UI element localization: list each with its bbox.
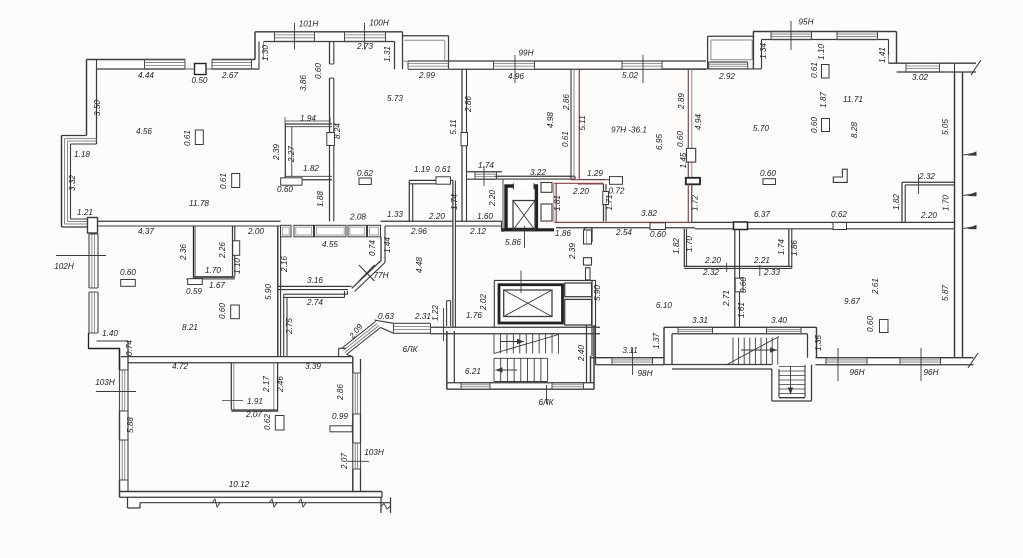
6LK stair lower flight treads [494,357,548,359]
thin line left of upper shaft [502,179,504,232]
bottom wall 10.12 [120,491,383,493]
dim line 1.94 [285,120,330,122]
window 100H [345,31,386,33]
svg-text:0.60: 0.60 [676,131,685,147]
svg-text:5.90: 5.90 [264,284,273,300]
svg-text:0.74: 0.74 [368,240,377,256]
left wall bump step top [62,135,87,137]
svg-text:5.88: 5.88 [126,417,135,433]
svg-text:0.61: 0.61 [561,131,570,147]
door 0.62 in right corridor wall [833,223,847,230]
wall 3.02 segment y63.2/72 [889,62,977,64]
svg-text:0.62: 0.62 [263,414,272,430]
svg-text:1.94: 1.94 [300,114,316,123]
svg-text:3.02: 3.02 [912,73,928,82]
wall 0.74 vertical [119,349,121,371]
svg-text:2.89: 2.89 [677,93,686,110]
window 98H [612,357,653,359]
svg-text:0.63: 0.63 [378,312,394,321]
wall 99H to 5.02 [535,60,623,62]
rect 0.60 room 9.67 [880,320,889,333]
svg-text:3.22: 3.22 [530,168,546,177]
left wall step 1.40 [88,333,90,349]
corridor wall 2.96 segment [381,220,453,222]
red small room door on right wall [603,192,609,205]
bay corner piece lower [347,355,353,357]
svg-text:95Н: 95Н [798,18,813,27]
pier black at red wall bottom [686,178,700,185]
black wall x603.5-607 below red room [603,184,605,221]
svg-text:8.28: 8.28 [850,122,859,138]
right wall lower to corner [352,469,354,492]
door rect on wall x734.8 [735,278,743,292]
bay1 left wall 1.31 [394,42,396,70]
svg-text:2.67: 2.67 [221,71,238,80]
svg-text:1.19: 1.19 [414,165,430,174]
svg-text:6.95: 6.95 [655,134,664,150]
svg-text:6.10: 6.10 [656,301,672,310]
svg-text:1.33: 1.33 [387,210,403,219]
wall y266.4/268.4 (2.20/2.21 rooms) [684,265,792,267]
rect 0.62 top middle [359,178,371,185]
window 96H-2 [900,357,941,359]
wall 5.02 to bay2 [662,60,706,62]
svg-text:4.96: 4.96 [508,72,524,81]
svg-text:1.74: 1.74 [450,194,459,210]
svg-text:1.88: 1.88 [316,191,325,207]
tick 2.32 [918,174,920,194]
step up 1.34 [752,32,754,69]
svg-text:2.08: 2.08 [349,213,366,222]
svg-text:11.71: 11.71 [843,95,863,104]
left bump wall 3.32 multi-line [61,136,63,228]
outer wall: left upper 3.50 [86,60,88,136]
tick 103H right [347,460,369,462]
rect 0.60 room 5.70 [763,179,776,185]
window 102H lower [88,292,90,333]
svg-text:2.46: 2.46 [276,376,285,393]
closet bottom thick [231,409,277,412]
svg-text:0.62: 0.62 [831,210,847,219]
red small room left wall 1.81 [553,183,555,222]
6LK bottom window 2 [552,382,584,384]
exit stair treads [779,366,805,368]
stair box left wall 1.37 [663,327,665,364]
svg-text:2.74: 2.74 [306,298,323,307]
svg-text:2.21: 2.21 [753,256,770,265]
window right of 95H [837,31,878,33]
column 0.50 [195,64,207,75]
door 0.60 in red corridor wall [650,223,666,230]
svg-text:0.61: 0.61 [183,130,192,146]
window 95H [771,31,812,33]
svg-text:2.20: 2.20 [920,211,937,220]
svg-text:0.60: 0.60 [866,316,875,332]
svg-text:1.34: 1.34 [759,43,768,59]
svg-text:2.40: 2.40 [577,345,586,362]
6LK stair upper flight treads [493,335,495,354]
svg-text:1.45: 1.45 [679,152,688,168]
svg-text:1.72: 1.72 [691,195,700,211]
small rect on strip [586,268,591,280]
svg-text:103Н: 103Н [95,378,115,387]
wall x684-686.5 (1.82) [683,229,685,267]
window 3.31 [678,326,713,328]
svg-text:8.21: 8.21 [182,323,198,332]
lower elevator cab with X [504,290,552,317]
vent rects right of upper shaft [541,183,552,193]
stair box bottom wall [664,364,772,366]
svg-text:6ЛК: 6ЛК [403,345,419,354]
svg-text:3.39: 3.39 [305,362,321,371]
svg-text:1.35: 1.35 [814,335,823,351]
stair box right wall 1.35 [816,327,818,357]
window 96H-1 [826,357,867,359]
corridor wall to elevator [456,220,503,222]
outer wall: upper top (101H/100H), y31.8/41.5 [255,31,403,33]
svg-text:4.72: 4.72 [172,362,188,371]
svg-text:102Н: 102Н [54,262,74,271]
svg-text:2.36: 2.36 [179,244,188,261]
wall 4.48 x452.7-455.7 [452,180,454,327]
svg-text:1.74: 1.74 [478,161,494,170]
elevator upper door gap [514,183,535,189]
svg-text:2.02: 2.02 [479,294,488,311]
svg-text:2.00: 2.00 [247,227,264,236]
bay1 outer+inner rect [403,35,449,37]
roomlet 1.94/2.39 walls [285,123,332,125]
bottom-right step of bottom block [381,492,383,498]
svg-text:1.86: 1.86 [790,240,799,256]
bay1 window 2.99 [408,60,449,62]
6LK bottom window 1 [461,382,490,384]
window 103H left upper [119,370,121,411]
stair box top wall y327.3/333.8 with windows 3.31 3.40 [664,326,817,328]
svg-text:97Н -36.1: 97Н -36.1 [611,126,647,135]
svg-text:4.98: 4.98 [546,112,555,128]
red wall horiz 1.29/2.20 w/ door 0.72 [571,179,610,181]
dim tick above lower elevator [520,271,522,294]
wall down from corridor x381-385 (0.74/1.44) [380,237,382,261]
svg-text:5.86: 5.86 [505,238,521,247]
outer wall top-right (95H), y31.5/39.5 [753,31,897,33]
window 101H [275,31,315,33]
svg-text:2.86: 2.86 [464,96,473,113]
svg-text:0.61: 0.61 [810,62,819,78]
red wall right of 97H (x688-692) [687,69,689,178]
wall 3.16 y286.4-289.6 [278,285,352,287]
lower elevator thick walls [499,285,563,323]
bay corner piece upper 0.63 [381,328,394,334]
bottom block right wall: corner at top [352,357,354,373]
corridor wall x277-281 (5.90) [277,226,279,357]
lower elevator outer thin rect [494,279,595,281]
elevator upper cab with X [513,201,535,231]
window 3.40 [767,326,802,328]
svg-text:4.94: 4.94 [694,114,703,130]
dim line 1.29 above red room [580,179,605,181]
svg-text:1.74: 1.74 [777,239,786,255]
svg-text:10.12: 10.12 [229,480,250,489]
window 5.02 [622,60,662,62]
svg-text:1.82: 1.82 [892,194,901,210]
tick 98H [632,348,634,375]
door rect 0.72 [610,177,623,185]
wall 2.26 x232-235 [232,226,234,276]
svg-text:1.22: 1.22 [431,305,440,321]
rect 0.60 room 8.21 [231,305,240,319]
svg-text:0.60: 0.60 [218,303,227,319]
svg-text:2.86: 2.86 [562,94,571,111]
svg-text:96Н: 96Н [923,368,938,377]
svg-text:0.61: 0.61 [435,165,451,174]
svg-text:1.70: 1.70 [685,236,694,252]
red wall left of 97H (5.11) [570,69,572,179]
elevator zone top wall 3.22 [495,175,575,177]
svg-text:9.67: 9.67 [844,297,860,306]
svg-text:2.99: 2.99 [418,71,435,80]
corner pier at 102H [88,218,98,234]
ticks for top labels [294,23,296,50]
window 102H upper [88,234,90,288]
svg-text:0.99: 0.99 [332,412,348,421]
boxes right of lower elevator [565,283,592,297]
svg-text:2.26: 2.26 [218,242,227,259]
left wall bump step bottom [62,226,88,228]
loggia double wall 2.74/2.75 [284,293,348,295]
tick below elevator 5.86 [524,226,526,248]
strip right of elevators: window piers [584,230,592,244]
svg-text:0.60: 0.60 [277,185,293,194]
svg-text:2.33: 2.33 [763,268,780,277]
svg-text:100Н: 100Н [369,19,389,28]
svg-text:0.74: 0.74 [125,340,134,356]
rect 0.60 below room 11.78 [121,280,136,287]
wall x734.5-739.8 vertical to stairbox [734,229,736,327]
svg-text:5.90: 5.90 [593,285,602,301]
bay2 outer+inner rect [708,35,754,37]
svg-text:1.70: 1.70 [205,266,221,275]
red wall lower segment 1.72 [687,184,689,222]
svg-text:2.20: 2.20 [572,187,589,196]
outer wall: top-left block top, y59.5/69 [87,59,186,61]
pier door right of 2.20 room [734,222,748,230]
6LK stairwell outline [446,331,448,389]
svg-text:3.31: 3.31 [692,316,708,325]
shelf 0.99 [330,426,352,432]
svg-text:3.40: 3.40 [771,316,787,325]
elevator shaft upper thick walls [506,186,536,230]
window 103H/2.07 right [352,443,354,469]
svg-text:1.87: 1.87 [819,92,828,108]
svg-text:2.20: 2.20 [704,256,721,265]
svg-text:1.81: 1.81 [553,195,562,211]
interior wall x461-468 (5.11/2.86) [461,69,463,132]
svg-text:0.50: 0.50 [192,76,208,85]
svg-text:0.60: 0.60 [810,117,819,133]
red small room top wall [554,182,604,184]
top-right corner step down [896,32,898,64]
svg-text:2.32: 2.32 [702,268,719,277]
svg-text:2.54: 2.54 [615,228,632,237]
svg-text:6.37: 6.37 [754,210,770,219]
svg-text:2.16: 2.16 [280,256,289,273]
door rect 0.62 below closet [275,416,284,431]
pier below corridor near 2.39 [585,228,593,242]
svg-text:0.61: 0.61 [219,173,228,189]
diagonal bay window 2.09 (4 lines) [347,328,381,355]
window 103H left lower [119,440,121,480]
svg-text:1.29: 1.29 [587,169,603,178]
window 3.02 [906,62,940,64]
svg-text:1.10: 1.10 [233,258,242,274]
svg-text:2.07: 2.07 [245,410,262,419]
svg-text:4.44: 4.44 [138,71,154,80]
svg-text:2.31: 2.31 [414,312,431,321]
svg-text:1.10: 1.10 [817,44,826,60]
svg-text:96Н: 96Н [849,368,864,377]
exit stair down arrow [790,366,792,393]
L-shaped column symbol [833,169,847,182]
wall 2.40 vertical [590,356,592,383]
tick 102H [56,255,106,257]
77H cross mark [359,265,375,281]
svg-text:2.17: 2.17 [262,376,271,393]
dim ticks on wall y267 [726,263,728,272]
6LK upper diagonal [494,335,559,354]
wall under elevator thick [502,228,555,231]
tick 96H-1 [837,348,839,381]
end tick right top [971,60,981,75]
rect 0.61 room 11.78 [232,174,240,188]
tick 96H-2 [920,348,922,381]
svg-text:3.50: 3.50 [93,100,102,116]
right stair arrow right [741,349,777,351]
svg-text:0.60: 0.60 [314,63,323,79]
window 2.31 [394,322,431,324]
bottom-left corner step [119,492,121,498]
svg-text:99Н: 99Н [518,49,533,58]
corridor wall right part 6.37 [692,221,955,223]
window 99H [494,60,535,62]
6LK top wall band [431,326,601,328]
svg-text:8.24: 8.24 [333,123,342,139]
svg-text:101Н: 101Н [299,20,319,29]
svg-text:1.31: 1.31 [383,46,392,62]
svg-text:3.82: 3.82 [641,209,657,218]
svg-text:1.40: 1.40 [102,329,118,338]
6LK lower arrow [496,369,518,371]
svg-text:4.48: 4.48 [415,257,424,273]
wall between bay1 and 99H [449,60,494,62]
rect 0.60 room 11.71 lower [822,119,830,132]
window 4.44 [145,59,186,61]
svg-text:4.56: 4.56 [136,127,152,136]
svg-text:103Н: 103Н [364,448,384,457]
left wall to bottom corner [119,480,121,492]
svg-text:1.71: 1.71 [605,195,614,211]
svg-text:98Н: 98Н [637,369,652,378]
pier rect red wall mid [687,148,696,162]
svg-text:1.91: 1.91 [247,397,263,406]
corridor wall left part 4.37/2.00 [98,220,281,222]
svg-text:2.39: 2.39 [272,144,281,161]
exit stair walls [771,369,773,401]
window 2.67 [212,59,252,61]
tick 103H left [96,391,136,393]
svg-text:1.41: 1.41 [878,47,887,63]
tick 6LK bottom [546,385,548,404]
tick on 1.74 window [483,166,485,186]
room 8.21 bottom wall 4.72/3.39 y356-363 [121,356,353,358]
svg-text:1.76: 1.76 [466,311,482,320]
svg-text:2.92: 2.92 [718,72,735,81]
room 1.19 left wall [408,180,410,221]
svg-text:5.11: 5.11 [578,115,587,130]
svg-text:0.60: 0.60 [120,268,136,277]
svg-text:1.70: 1.70 [942,195,951,211]
svg-text:2.12: 2.12 [469,227,486,236]
window 2.86 right of bottom block [352,373,354,414]
svg-text:1.86: 1.86 [555,229,571,238]
svg-text:1.60: 1.60 [477,212,493,221]
bay2 window 2.92 [709,61,748,63]
opening rect on x461 wall [461,133,468,146]
svg-text:5.02: 5.02 [622,71,638,80]
bottom wall right section y357.7/364.7 [816,357,974,359]
window-box row 4.55 [281,225,292,237]
break marks on foundation [212,499,220,507]
svg-text:1.67: 1.67 [209,281,225,290]
window hatch small 1.74 [475,171,497,173]
svg-text:3.16: 3.16 [307,276,323,285]
svg-text:5.87: 5.87 [941,285,950,301]
svg-text:2.61: 2.61 [871,278,880,295]
svg-text:0.72: 0.72 [609,187,625,196]
svg-text:6.21: 6.21 [465,367,481,376]
svg-text:2.20: 2.20 [488,190,497,207]
svg-text:11.78: 11.78 [189,199,209,208]
svg-text:0.59: 0.59 [186,287,202,296]
wall 98H segment y357.7/364.7 [591,357,665,359]
red corridor wall 3.82/2.54 [555,221,692,223]
svg-text:1.30: 1.30 [261,45,270,61]
wall 2.36 x193 [193,226,195,279]
svg-text:5.70: 5.70 [753,124,769,133]
svg-text:77Н: 77Н [373,271,388,280]
door leaf 0.60 roomlet [281,178,302,185]
svg-text:0.60: 0.60 [760,169,776,178]
svg-text:6ЛК: 6ЛК [539,398,555,407]
stub 1.22 [446,301,448,326]
wall band y171.8/179.2 right of x461 [467,171,503,173]
svg-text:5.11: 5.11 [449,119,458,134]
door rect on wall 2.26 [233,241,240,256]
right wall pier [352,414,354,443]
door rect in wall x329 at y133 [327,133,335,146]
rect 0.61 room 4.56 [195,130,203,145]
svg-text:2.32: 2.32 [918,172,935,181]
svg-text:2.86: 2.86 [336,384,345,401]
wall x788.5-791.8 (1.86) [788,229,790,267]
closet dim line [222,400,243,402]
wall from box to bottom (x592-595.5) [591,280,593,356]
svg-text:3.32: 3.32 [68,175,77,191]
tick 2.31 [443,308,445,341]
right stair diagonal [727,337,779,365]
room 2.32 top-right walls [901,182,903,222]
end tick bottom right [968,353,978,368]
